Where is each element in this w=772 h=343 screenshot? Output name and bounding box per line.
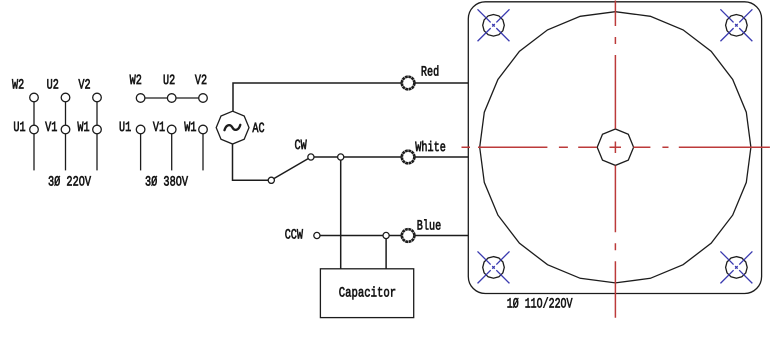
wire CW contact to White terminal xyxy=(311,156,402,158)
terminal W1 circle (220V group) xyxy=(93,125,102,134)
wire W1 lead down (380V) xyxy=(202,134,204,171)
terminal W2 circle (380V group) xyxy=(136,94,145,103)
motor M1 frame (rounded square) xyxy=(468,2,761,294)
svg-text:W1: W1 xyxy=(184,120,196,136)
switch CCW contact node xyxy=(314,232,320,238)
wire junction J2 to capacitor xyxy=(385,236,387,269)
AC source sine symbol xyxy=(225,125,241,130)
terminal V1 circle (220V group) xyxy=(61,125,70,134)
terminal W2 circle (220V group) xyxy=(30,93,39,102)
hole centermark X top-left (blue) xyxy=(478,9,510,41)
terminal U2 circle (220V group) xyxy=(61,93,70,102)
svg-text:U2: U2 xyxy=(47,78,59,94)
hole centermark X top-right (blue) xyxy=(720,9,752,41)
terminal W1 circle (380V group) xyxy=(199,125,208,134)
node J1 on White line xyxy=(338,154,344,160)
svg-text:3Ø 38OV: 3Ø 38OV xyxy=(145,175,188,191)
svg-text:U1: U1 xyxy=(13,120,25,136)
terminal U2 circle (380V group) xyxy=(167,94,176,103)
svg-text:W2: W2 xyxy=(12,78,24,94)
wire star bar W2-U2 (380V) xyxy=(141,97,172,99)
terminal U1 circle (220V group) xyxy=(30,125,39,134)
svg-text:U1: U1 xyxy=(119,120,131,136)
terminal V1 circle (380V group) xyxy=(167,125,176,134)
hole centermark X bottom-left (blue) xyxy=(478,251,510,283)
switch blade CW xyxy=(274,158,309,178)
centerline vertical (red dash-dot) xyxy=(614,1,616,318)
svg-text:Red: Red xyxy=(421,65,439,81)
svg-text:V2: V2 xyxy=(78,78,90,94)
switch CW contact node xyxy=(308,154,314,160)
mounting hole bottom-left xyxy=(483,257,505,279)
svg-text:CW: CW xyxy=(295,138,308,154)
svg-text:White: White xyxy=(415,140,446,156)
svg-text:1Ø 11O/22OV: 1Ø 11O/22OV xyxy=(507,297,573,313)
wire U1 lead down (380V) xyxy=(140,134,142,171)
wire W2-U1 link column 1 (220V) xyxy=(33,102,35,125)
wire U2-V1 link column 2 (220V) xyxy=(65,102,67,125)
wire W1 lead down column 3 (220V) xyxy=(96,134,98,171)
wire V1 lead down (380V) xyxy=(171,134,173,171)
terminal White circle xyxy=(402,151,415,164)
wire AC top to Red terminal xyxy=(233,83,402,111)
terminal Blue circle xyxy=(402,229,415,242)
motor M1 stator circle xyxy=(480,12,751,283)
wire CCW contact to Blue terminal xyxy=(317,235,402,237)
terminal V2 circle (380V group) xyxy=(199,94,208,103)
terminal U1 circle (380V group) xyxy=(136,125,145,134)
wire junction J1 to capacitor xyxy=(340,157,342,269)
mounting hole bottom-right xyxy=(726,257,748,279)
svg-text:W1: W1 xyxy=(77,120,89,136)
svg-text:V1: V1 xyxy=(45,120,57,136)
switch pole node xyxy=(268,177,274,183)
AC source U1 octagon xyxy=(216,111,249,144)
hole centermark X bottom-right (blue) xyxy=(720,251,752,283)
terminal Red circle xyxy=(402,77,415,90)
mounting hole top-left xyxy=(483,15,505,37)
svg-text:Capacitor: Capacitor xyxy=(339,285,396,301)
svg-text:U2: U2 xyxy=(163,73,175,89)
wire U1 lead down column 1 (220V) xyxy=(33,134,35,171)
node J2 on Blue line xyxy=(383,232,389,238)
capacitor C1 box xyxy=(320,269,413,318)
svg-text:V1: V1 xyxy=(153,120,165,136)
wire AC bottom to switch pole xyxy=(233,144,269,180)
wire Blue terminal to motor xyxy=(414,235,468,237)
wire Red terminal to motor xyxy=(414,82,468,84)
svg-text:CCW: CCW xyxy=(285,228,304,244)
svg-text:3Ø 22OV: 3Ø 22OV xyxy=(48,175,91,191)
motor shaft circle xyxy=(597,129,633,165)
centerline horizontal (red dash-dot) xyxy=(462,146,770,148)
svg-text:AC: AC xyxy=(252,121,264,137)
wire White terminal to motor xyxy=(414,156,468,158)
svg-text:Blue: Blue xyxy=(417,219,441,235)
svg-text:V2: V2 xyxy=(195,73,207,89)
wire star bar U2-V2 (380V) xyxy=(172,97,203,99)
wire V1 lead down column 2 (220V) xyxy=(65,134,67,171)
mounting hole top-right xyxy=(726,15,748,37)
wire V2-W1 link column 3 (220V) xyxy=(96,102,98,125)
terminal V2 circle (220V group) xyxy=(93,93,102,102)
svg-text:W2: W2 xyxy=(130,73,142,89)
